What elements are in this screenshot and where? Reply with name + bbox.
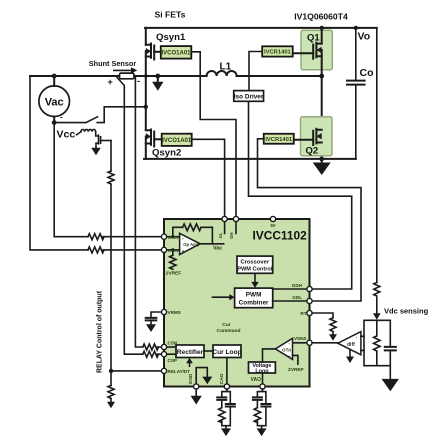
pin GH top <box>233 216 238 221</box>
svg-text:IVCR1401: IVCR1401 <box>264 50 292 56</box>
svg-text:Cur Loop: Cur Loop <box>212 349 241 356</box>
arrow RT ground <box>329 334 337 341</box>
wire diff inputs <box>361 336 364 350</box>
svg-text:IV1Q06060T4: IV1Q06060T4 <box>294 12 348 22</box>
wire relay control vertical <box>110 141 112 403</box>
transistor Q1 <box>313 28 322 159</box>
relay coil <box>77 132 81 135</box>
capacitor Co <box>347 81 365 85</box>
svg-text:Op Amp: Op Amp <box>183 242 200 247</box>
svg-text:Command: Command <box>217 328 241 334</box>
block Crossover PWM Control <box>237 256 273 273</box>
svg-text:IVCR1401: IVCR1401 <box>265 137 293 143</box>
node relay control <box>109 369 113 373</box>
pin RT <box>307 310 312 315</box>
wire OTA output to voltage loop <box>263 349 276 362</box>
svg-text:+: + <box>355 350 358 355</box>
ground at rail <box>157 76 159 82</box>
wire Iso Driver input from GDH <box>249 101 352 289</box>
ground CAO <box>221 428 231 436</box>
pin CAO <box>224 384 229 389</box>
svg-text:2VREF: 2VREF <box>166 271 182 277</box>
svg-text:+: + <box>288 354 291 359</box>
driver IVCO1A01 (Qsyn2) <box>162 134 192 146</box>
svg-text:2VREF: 2VREF <box>288 367 304 373</box>
op-amp OTA <box>293 342 307 344</box>
svg-text:RT: RT <box>300 311 306 316</box>
driver IVCR1401 (Q2) <box>264 134 294 144</box>
svg-text:Co: Co <box>360 67 374 79</box>
svg-text:VSNS: VSNS <box>294 336 307 341</box>
transistor relay driver <box>96 132 101 148</box>
node rail-ground <box>155 74 160 79</box>
svg-text:CAO: CAO <box>219 373 225 384</box>
pin VACN <box>161 234 166 239</box>
svg-text:-: - <box>60 113 63 122</box>
svg-text:Si FETs: Si FETs <box>155 10 186 20</box>
svg-text:Crossover: Crossover <box>240 259 269 265</box>
wire IVCR1401-2 input from GDL <box>258 139 362 301</box>
wire Qsyn2 gate <box>154 138 162 140</box>
svg-text:Qsyn1: Qsyn1 <box>156 32 186 43</box>
node Qsyn junction <box>144 74 148 78</box>
svg-text:GH: GH <box>229 233 234 239</box>
svg-text:IVCO1A01: IVCO1A01 <box>161 51 191 57</box>
svg-text:-: - <box>137 76 140 86</box>
wire RT external <box>312 313 333 334</box>
capacitor VAO c1 <box>253 397 262 400</box>
wire VACP to op-amp <box>167 249 180 251</box>
block PWM Combiner <box>235 288 273 308</box>
wire OTA 2vref input <box>293 355 298 364</box>
capacitor CAO c2 <box>226 404 235 407</box>
pin GND <box>194 384 199 389</box>
wire AC rail <box>30 75 322 77</box>
wire GND internal <box>196 368 207 384</box>
inductor L1 <box>207 71 237 76</box>
pin CSN <box>161 344 166 349</box>
svg-text:GDH: GDH <box>292 283 303 288</box>
wire Vac top <box>53 76 55 86</box>
capacitor Vdc <box>385 347 396 351</box>
wire to RELAY/DT pin <box>111 370 161 372</box>
svg-text:VACN: VACN <box>168 235 181 240</box>
op-amp diff <box>338 332 361 355</box>
resistor feedback <box>183 224 202 231</box>
resistor Vdc sense top <box>374 283 380 297</box>
resistor relay pulldown <box>108 385 114 398</box>
resistor CSP series <box>143 351 162 357</box>
wire IVCO1A01-1 to IC <box>191 52 236 217</box>
svg-text:+: + <box>182 249 185 255</box>
wire voltage loop to VAO pin <box>262 373 264 384</box>
block Iso Driver <box>234 91 264 102</box>
block Rectifier <box>176 345 204 358</box>
wire top rail <box>145 27 377 29</box>
wire VSNS to diff <box>312 342 338 344</box>
wire Vac minus to VACN <box>54 123 161 237</box>
IC IVCC1102 <box>164 219 310 387</box>
resistor CAO <box>219 408 225 423</box>
wire top pin stubs internal <box>225 222 236 234</box>
wire Q2 gate <box>294 139 313 141</box>
ground relay pulldown arrow <box>107 402 115 409</box>
transistor Qsyn2 <box>146 130 154 159</box>
svg-text:RELAY Control of output: RELAY Control of output <box>97 290 104 373</box>
relay switch <box>54 107 146 123</box>
shunt sensor element <box>120 73 135 79</box>
driver IVCR1401 (Q1) <box>262 46 293 56</box>
svg-text:Iso Driver: Iso Driver <box>234 94 264 101</box>
arrow shunt current <box>114 69 132 71</box>
wire rectifier to cur loop <box>204 350 213 352</box>
node relay to Qsyn2 drain <box>144 105 148 109</box>
wire Qsyn1 gate <box>154 51 161 53</box>
pin RELAY/DT <box>161 368 166 373</box>
wire Q1 gate <box>293 52 314 54</box>
capacitor VRMS <box>151 312 161 325</box>
svg-text:Rectifier: Rectifier <box>177 349 204 356</box>
pin GDH <box>307 286 312 291</box>
arrow into Vdc network <box>373 313 381 320</box>
node Q1 drain <box>320 26 324 30</box>
wire op-amp output Vac <box>200 243 224 245</box>
wire Vac bottom <box>53 117 55 123</box>
node Q2 source <box>319 157 324 162</box>
resistor Vdc <box>374 320 380 365</box>
wire CAO network <box>222 389 231 429</box>
svg-text:VAO: VAO <box>251 377 262 383</box>
resistor VACP series <box>88 247 104 253</box>
wire Vo sense vertical <box>376 28 378 313</box>
svg-text:IVCC1102: IVCC1102 <box>253 229 308 243</box>
op-amp U1 <box>180 233 201 254</box>
svg-text:5V: 5V <box>270 223 275 228</box>
ground relay transistor <box>91 148 101 156</box>
wire GDH <box>273 288 307 290</box>
pin VRMS <box>161 309 166 314</box>
ground GND pin <box>195 389 197 396</box>
wire CSP stub <box>167 353 176 355</box>
wire left loop to VACP <box>30 76 161 250</box>
pin CSP <box>161 352 166 357</box>
svg-text:VRMS: VRMS <box>168 310 181 315</box>
svg-text:IVCO1A01: IVCO1A01 <box>162 138 192 144</box>
svg-text:Vdc sensing: Vdc sensing <box>384 307 429 316</box>
pin 5V top <box>270 216 275 221</box>
svg-text:Vo: Vo <box>358 31 371 43</box>
resistor 2VREF vacp <box>172 250 174 255</box>
resistor VAO <box>254 408 260 423</box>
svg-text:GND: GND <box>188 373 194 384</box>
resistor VACN series <box>88 234 104 240</box>
svg-text:VACP: VACP <box>168 248 180 253</box>
op-amp input resistor feedback <box>173 227 213 244</box>
resistor relay gate <box>108 171 114 184</box>
resistor CSN series <box>143 344 162 350</box>
block Cur Loop <box>213 345 241 358</box>
svg-text:PWM: PWM <box>246 291 262 298</box>
arrow crossover to combiner <box>254 273 256 282</box>
transistor Qsyn1 <box>146 28 154 130</box>
svg-text:Vac: Vac <box>45 97 64 109</box>
pin VAO <box>260 384 265 389</box>
arrow into rectifier <box>189 363 191 366</box>
svg-text:Shunt Sensor: Shunt Sensor <box>89 59 137 68</box>
pin GDL <box>307 298 312 303</box>
wire GDL <box>273 300 307 302</box>
transistor block Q1 <box>301 30 332 69</box>
wire CSN stub <box>167 346 176 348</box>
capacitor VAO c2 <box>261 404 270 407</box>
ground diff <box>349 350 351 357</box>
svg-text:CSN: CSN <box>168 341 178 346</box>
wire VAO network <box>257 389 266 429</box>
svg-text:diff: diff <box>347 342 355 348</box>
svg-text:Q1: Q1 <box>307 33 320 44</box>
svg-text:Vcc: Vcc <box>57 129 76 141</box>
wire IVCR1401-1 input from Iso Driver <box>249 52 262 91</box>
source Vac <box>39 86 70 117</box>
wire cur loop to CAO <box>226 358 228 385</box>
svg-text:GDL: GDL <box>292 295 302 300</box>
svg-text:Q2: Q2 <box>306 146 319 157</box>
driver IVCO1A01 (Qsyn1) <box>161 46 192 59</box>
svg-text:Qsyn2: Qsyn2 <box>152 148 181 159</box>
svg-text:GL: GL <box>218 232 223 238</box>
capacitor CAO c1 <box>217 397 226 400</box>
resistor RT <box>330 318 336 332</box>
transistor block Q2 <box>301 117 333 156</box>
ground Vdc <box>382 379 399 391</box>
svg-text:OTA: OTA <box>282 348 292 353</box>
wire shunt plus sense <box>116 76 143 354</box>
svg-text:PWM Control: PWM Control <box>237 267 273 273</box>
transistor Q2 <box>313 129 322 145</box>
svg-text:CSP: CSP <box>168 358 177 363</box>
pin VACP <box>161 247 166 252</box>
wire shunt minus sense <box>135 76 142 347</box>
node switching <box>319 74 324 79</box>
svg-text:L1: L1 <box>220 62 232 73</box>
svg-text:Vac: Vac <box>213 246 222 252</box>
wire bottom rail <box>144 158 356 160</box>
ground VAO <box>257 428 267 436</box>
svg-text:Cur: Cur <box>222 322 231 328</box>
ground below Q2 <box>321 159 323 163</box>
pin VSNS <box>307 340 312 345</box>
ground VRMS <box>146 324 156 332</box>
svg-text:+: + <box>108 77 113 87</box>
arrow cur command to combiner <box>213 296 230 298</box>
block Voltage Loop <box>249 362 276 373</box>
node Vo <box>354 26 358 30</box>
svg-text:Combiner: Combiner <box>239 299 269 306</box>
wire Co branch <box>355 28 357 159</box>
wire VACN to op-amp <box>167 236 180 238</box>
Vdc divider network <box>364 320 390 379</box>
pin GL top <box>222 216 227 221</box>
svg-text:RELAY/DT: RELAY/DT <box>168 369 191 374</box>
wire IVCO1A01-2 to IC <box>192 139 225 216</box>
